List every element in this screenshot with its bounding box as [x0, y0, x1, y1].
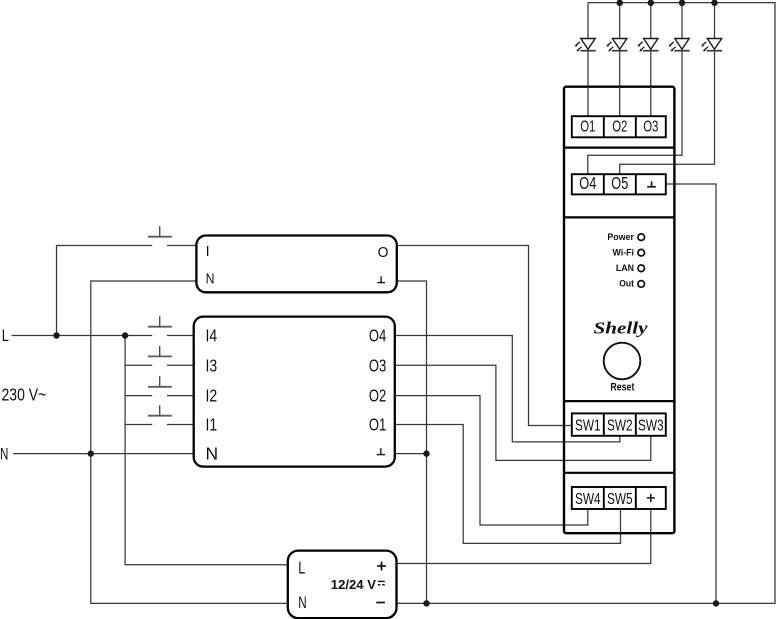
svg-text:Shelly: Shelly — [594, 319, 649, 338]
svg-text:Reset: Reset — [610, 382, 634, 394]
svg-text:O5: O5 — [611, 173, 628, 193]
svg-text:O4: O4 — [579, 173, 596, 193]
svg-text:O4: O4 — [369, 326, 387, 346]
svg-text:O3: O3 — [643, 118, 658, 135]
svg-text:N: N — [206, 271, 215, 287]
svg-text:I3: I3 — [206, 355, 218, 375]
svg-text:230 V~: 230 V~ — [2, 384, 47, 404]
svg-text:I1: I1 — [206, 415, 218, 435]
svg-text:Power: Power — [607, 232, 634, 242]
svg-text:N: N — [0, 444, 8, 463]
svg-text:SW2: SW2 — [607, 418, 633, 435]
svg-text:I2: I2 — [206, 386, 218, 406]
svg-text:Out: Out — [619, 279, 634, 289]
svg-text:L: L — [298, 557, 305, 577]
svg-text:O1: O1 — [580, 118, 595, 135]
svg-text:O2: O2 — [612, 118, 627, 135]
svg-text:O: O — [378, 245, 389, 261]
svg-text:N: N — [206, 444, 219, 464]
svg-text:SW4: SW4 — [575, 491, 601, 508]
svg-text:LAN: LAN — [616, 263, 634, 273]
svg-text:SW1: SW1 — [575, 418, 601, 435]
svg-text:SW3: SW3 — [638, 418, 664, 435]
svg-text:N: N — [298, 593, 306, 612]
svg-text:I: I — [206, 244, 210, 260]
svg-text:Wi-Fi: Wi-Fi — [613, 247, 635, 257]
svg-text:O1: O1 — [369, 415, 386, 435]
svg-text:O2: O2 — [369, 386, 386, 406]
svg-text:O3: O3 — [369, 355, 386, 375]
svg-text:I4: I4 — [206, 326, 218, 346]
svg-text:L: L — [2, 326, 9, 345]
svg-text:SW5: SW5 — [607, 491, 633, 508]
svg-text:12/24 V: 12/24 V — [331, 577, 377, 592]
